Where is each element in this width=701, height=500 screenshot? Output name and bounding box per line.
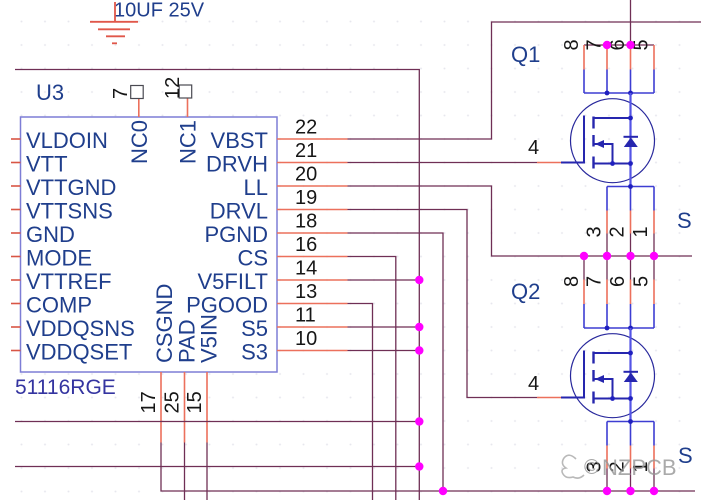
Q1 drain bracket junctions xyxy=(605,91,610,96)
U3 right pin stubs (red leads) xyxy=(277,139,348,351)
Q2 body diode xyxy=(624,371,639,373)
Q1 circle xyxy=(571,99,655,183)
svg-text:21: 21 xyxy=(295,140,317,162)
svg-text:Q1: Q1 xyxy=(511,42,540,67)
Q2 source pin stubs 3 2 1 xyxy=(607,446,654,469)
Q1 body diode xyxy=(624,136,639,138)
svg-text:10UF 25V: 10UF 25V xyxy=(114,0,205,22)
Q2 main vertical drain-source line xyxy=(629,328,631,422)
ground xyxy=(90,2,138,43)
Q2 drain link xyxy=(594,352,631,354)
svg-text:NC1: NC1 xyxy=(176,120,201,164)
Q1 source pin stubs 3 2 1 xyxy=(607,211,654,234)
svg-text:1: 1 xyxy=(630,226,652,237)
svg-text:GND: GND xyxy=(26,222,75,247)
U3 left pin stubs xyxy=(11,139,21,351)
wire V5IN pin15 down xyxy=(206,443,208,500)
pin 7 NC0 no-connect box xyxy=(131,86,144,118)
svg-text:V5FILT: V5FILT xyxy=(197,269,268,294)
Q2 source bracket junction xyxy=(628,419,633,424)
Q2 internal junction dots xyxy=(628,351,633,356)
svg-text:CSGND: CSGND xyxy=(152,284,177,363)
svg-text:NZPCB: NZPCB xyxy=(602,455,677,480)
svg-text:7: 7 xyxy=(584,39,606,50)
svg-text:CS: CS xyxy=(237,246,268,271)
wire CS pin16 down xyxy=(348,257,396,500)
svg-text:11: 11 xyxy=(295,305,316,327)
IC U3 body xyxy=(21,117,278,372)
pin 12 NC1 no-connect box xyxy=(179,85,192,117)
svg-text:7: 7 xyxy=(584,276,606,287)
Q2 source link xyxy=(594,398,631,400)
Q1 gate lead and gate bar xyxy=(561,116,584,163)
svg-text:VTTGND: VTTGND xyxy=(26,175,116,200)
svg-text:VTT: VTT xyxy=(26,152,68,177)
U3 bottom pin stubs 17 25 15 xyxy=(161,372,207,443)
svg-text:VBST: VBST xyxy=(211,128,268,153)
Q2 source bracket xyxy=(607,422,654,446)
junction dots on CS/V5 vertical node xyxy=(415,276,423,471)
svg-text:VTTSNS: VTTSNS xyxy=(26,199,113,224)
svg-text:3: 3 xyxy=(584,226,606,237)
wire PGND pin18 to ground bus xyxy=(348,233,444,491)
Q1 main vertical drain-source line xyxy=(629,93,631,187)
svg-text:S: S xyxy=(678,443,693,468)
svg-text:V5IN: V5IN xyxy=(197,314,222,363)
svg-text:14: 14 xyxy=(295,258,317,280)
wire DRVH pin21 to Q1 gate xyxy=(348,162,538,164)
wire S5 pin11 to node xyxy=(348,326,420,328)
svg-text:VDDQSNS: VDDQSNS xyxy=(26,316,135,341)
Q1 source bracket xyxy=(607,187,654,211)
Q2 body link with arrow xyxy=(594,379,613,399)
Q2 gate lead and gate bar xyxy=(561,351,584,398)
svg-text:12: 12 xyxy=(162,77,184,99)
svg-text:7: 7 xyxy=(110,88,132,99)
svg-text:MODE: MODE xyxy=(26,246,92,271)
svg-text:8: 8 xyxy=(561,39,583,50)
U3 right pin names xyxy=(186,128,268,365)
Q2 pin numbers 3 2 1 xyxy=(584,461,653,472)
wire LL pin20 to switch node S xyxy=(348,186,693,256)
wire left rail lower xyxy=(15,466,419,468)
Q1 channel segments xyxy=(592,117,594,169)
Q2 channel segments xyxy=(592,352,594,404)
svg-text:20: 20 xyxy=(295,164,317,186)
Q2 drain bracket junctions xyxy=(605,326,610,331)
transistor Q2 MOSFET symbol xyxy=(561,328,655,422)
svg-text:13: 13 xyxy=(295,281,317,303)
wire left rail upper xyxy=(15,421,419,423)
Q1 internal junction dots xyxy=(628,116,633,121)
transistor Q2 drain pin stubs 8 7 6 5 xyxy=(584,280,654,305)
Q2 pin numbers 8 7 6 5 xyxy=(561,276,653,287)
svg-text:19: 19 xyxy=(295,187,317,209)
wire VIN feed to Q1 drain xyxy=(630,0,632,45)
svg-text:15: 15 xyxy=(184,391,206,413)
svg-text:5: 5 xyxy=(631,276,653,287)
wire Q2 source pins to ground bus xyxy=(607,469,654,492)
Q2 drain bracket xyxy=(584,304,654,328)
junction dots on ground bus xyxy=(439,487,658,495)
Q2 gate pin stub xyxy=(537,397,561,399)
Q1 drain link xyxy=(594,117,631,119)
svg-text:COMP: COMP xyxy=(26,293,92,318)
svg-text:4: 4 xyxy=(528,373,539,395)
svg-text:25: 25 xyxy=(162,391,184,413)
svg-text:DRVL: DRVL xyxy=(210,199,268,224)
wire top rail to CS/V5 node xyxy=(15,70,419,500)
wire CSGND pin17 to ground bus xyxy=(161,443,695,492)
wire DRVL pin19 to Q2 gate xyxy=(348,210,538,398)
Q1 source link xyxy=(594,163,631,165)
svg-text:17: 17 xyxy=(138,391,160,413)
svg-text:NC0: NC0 xyxy=(127,120,152,164)
Q1 body link with arrow xyxy=(594,144,613,164)
wire S bus to Q2 drain pins xyxy=(584,256,654,280)
Q1 drain bracket xyxy=(584,70,654,94)
svg-text:4: 4 xyxy=(528,137,539,159)
junction dots on Q1 drain header xyxy=(603,41,635,49)
U3 right pin numbers xyxy=(295,117,317,351)
svg-text:Q2: Q2 xyxy=(511,279,540,304)
svg-text:S: S xyxy=(677,208,692,233)
svg-text:16: 16 xyxy=(295,234,317,256)
svg-text:VDDQSET: VDDQSET xyxy=(26,340,132,365)
junction dots on S switch-node bus xyxy=(580,252,658,260)
svg-text:VTTREF: VTTREF xyxy=(26,269,112,294)
watermark xyxy=(562,455,677,480)
Q1 pin numbers 3 2 1 xyxy=(584,226,653,237)
Q1 gate pin stub xyxy=(537,162,561,164)
wire Q1 drain header xyxy=(584,44,654,46)
wire PGOOD pin13 down xyxy=(348,304,373,500)
svg-text:PGOOD: PGOOD xyxy=(186,293,268,318)
svg-text:2: 2 xyxy=(607,226,629,237)
svg-text:©: © xyxy=(584,456,600,479)
svg-text:22: 22 xyxy=(295,117,317,139)
Q1 source bracket junction xyxy=(628,184,633,189)
svg-text:S3: S3 xyxy=(241,340,268,365)
svg-text:6: 6 xyxy=(607,276,629,287)
wire Q1 source pins to S bus xyxy=(607,234,654,257)
svg-text:PGND: PGND xyxy=(204,222,268,247)
U3 left pin names xyxy=(26,128,135,365)
svg-text:S5: S5 xyxy=(241,316,268,341)
wire S3 pin10 to node xyxy=(348,350,420,352)
svg-text:18: 18 xyxy=(295,211,317,233)
transistor Q1 MOSFET symbol xyxy=(561,93,655,187)
svg-text:U3: U3 xyxy=(36,80,64,105)
svg-text:DRVH: DRVH xyxy=(206,152,268,177)
svg-text:51116RGE: 51116RGE xyxy=(15,376,116,399)
svg-text:VLDOIN: VLDOIN xyxy=(26,128,108,153)
Q2 circle xyxy=(571,334,655,418)
wire VBST pin22 to top right xyxy=(348,22,701,139)
Q1 pin numbers 8 7 6 5 xyxy=(561,39,653,50)
svg-text:LL: LL xyxy=(244,175,268,200)
wire V5FILT pin14 to node xyxy=(348,279,420,281)
svg-text:8: 8 xyxy=(561,276,583,287)
svg-text:10: 10 xyxy=(295,328,317,350)
wire PAD pin25 down xyxy=(184,443,186,500)
transistor Q1 drain pin stubs 8 7 6 5 xyxy=(584,45,654,70)
